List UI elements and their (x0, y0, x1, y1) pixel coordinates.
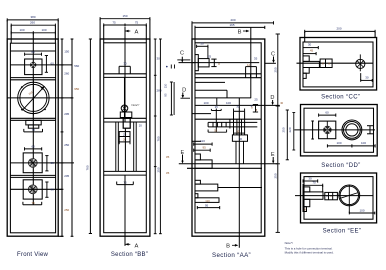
svg-text:200: 200 (336, 27, 341, 31)
svg-text:560: 560 (74, 64, 79, 68)
svg-text:950: 950 (74, 87, 79, 91)
svg-text:110: 110 (205, 199, 210, 203)
svg-text:30: 30 (123, 62, 127, 66)
svg-text:60: 60 (51, 188, 55, 192)
svg-text:150: 150 (122, 14, 127, 18)
svg-text:250: 250 (281, 127, 285, 132)
svg-text:780: 780 (156, 136, 160, 141)
svg-text:150: 150 (64, 50, 69, 54)
svg-text:20: 20 (123, 138, 127, 142)
svg-text:20: 20 (139, 123, 143, 127)
svg-text:220: 220 (288, 127, 292, 132)
svg-text:100: 100 (203, 101, 208, 105)
svg-text:95: 95 (164, 93, 168, 97)
svg-text:35: 35 (254, 57, 258, 61)
svg-text:100: 100 (359, 208, 364, 212)
svg-text:A: A (134, 29, 138, 35)
svg-text:100: 100 (226, 101, 231, 105)
svg-text:25: 25 (208, 55, 212, 59)
svg-text:30: 30 (280, 101, 283, 105)
svg-text:45: 45 (310, 48, 314, 52)
svg-text:110: 110 (164, 83, 168, 88)
svg-text:250: 250 (274, 173, 278, 178)
svg-text:30: 30 (157, 56, 161, 60)
svg-text:C: C (271, 51, 275, 57)
svg-text:100: 100 (41, 28, 46, 32)
svg-text:E: E (271, 152, 275, 158)
svg-text:100: 100 (361, 141, 366, 145)
svg-text:Section “EE”: Section “EE” (323, 229, 362, 235)
svg-text:200: 200 (230, 18, 235, 22)
svg-text:75: 75 (135, 20, 139, 24)
svg-text:Section “CC”: Section “CC” (321, 95, 360, 101)
svg-text:Note*/: Note*/ (285, 241, 293, 245)
svg-text:205: 205 (64, 174, 69, 178)
svg-text:260: 260 (64, 72, 69, 76)
svg-text:95: 95 (205, 204, 209, 208)
svg-text:B: B (238, 29, 242, 35)
svg-text:Section “BB”: Section “BB” (111, 252, 148, 258)
svg-text:50: 50 (200, 42, 204, 46)
svg-text:250: 250 (156, 167, 160, 172)
svg-text:Note*/: Note*/ (132, 103, 140, 107)
svg-text:75: 75 (112, 20, 116, 24)
svg-text:Section “AA”: Section “AA” (212, 252, 251, 259)
svg-text:Section “DD”: Section “DD” (321, 163, 360, 169)
svg-text:250: 250 (274, 67, 278, 72)
svg-text:30: 30 (365, 75, 369, 79)
svg-text:Front View: Front View (17, 252, 48, 258)
svg-text:60: 60 (31, 50, 35, 54)
svg-text:B: B (226, 244, 230, 250)
svg-text:75: 75 (32, 201, 36, 205)
svg-text:55: 55 (214, 129, 217, 133)
svg-text:280: 280 (157, 88, 162, 92)
svg-text:100: 100 (336, 141, 341, 145)
svg-text:25: 25 (254, 98, 258, 102)
svg-text:110: 110 (200, 139, 205, 143)
svg-text:12: 12 (247, 63, 251, 67)
svg-text:25: 25 (123, 132, 127, 136)
svg-text:95: 95 (203, 146, 207, 150)
svg-text:295: 295 (64, 112, 69, 116)
svg-text:165: 165 (229, 23, 234, 27)
svg-text:25: 25 (215, 105, 218, 109)
svg-text:35: 35 (166, 155, 170, 159)
svg-text:60: 60 (32, 145, 36, 149)
svg-text:A: A (134, 243, 138, 249)
svg-text:60: 60 (325, 110, 329, 114)
svg-text:250: 250 (64, 143, 69, 147)
svg-text:35: 35 (166, 171, 170, 175)
svg-text:30: 30 (236, 105, 239, 109)
svg-text:100: 100 (19, 28, 24, 32)
svg-text:60: 60 (51, 62, 55, 66)
svg-text:380: 380 (30, 15, 35, 19)
svg-text:C: C (180, 51, 184, 57)
svg-text:250: 250 (64, 208, 69, 212)
svg-text:70: 70 (312, 181, 316, 185)
svg-text:Modify this if different termi: Modify this if different terminal is use… (285, 251, 334, 255)
svg-text:75: 75 (32, 128, 36, 132)
svg-text:30: 30 (239, 137, 243, 141)
svg-text:30: 30 (308, 42, 312, 46)
svg-text:60: 60 (51, 161, 55, 165)
svg-text:780: 780 (86, 165, 90, 170)
svg-text:260: 260 (30, 21, 35, 25)
